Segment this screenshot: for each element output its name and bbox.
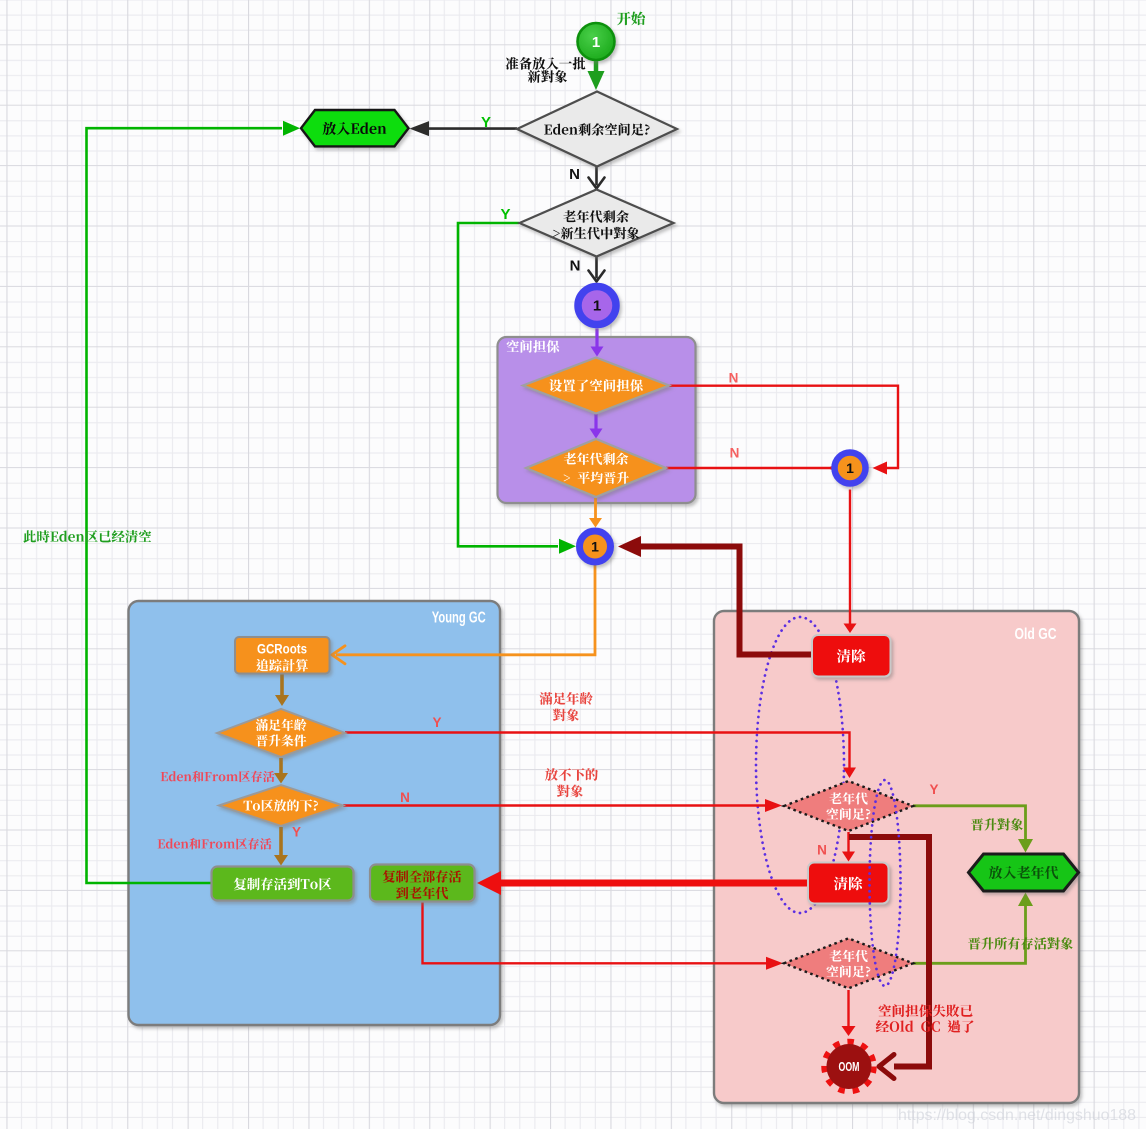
label 放不下的 [545,768,598,781]
wire start arrow [594,59,599,72]
wire N down 2 [595,257,598,279]
wire purple arrow 2 [594,414,597,430]
svg-text:Y: Y [481,114,491,131]
svg-text:Y: Y [929,782,938,797]
label 新对象 [528,70,567,83]
svg-text:1: 1 [592,34,600,51]
svg-text:N: N [817,843,827,858]
wire green Y to node [458,223,558,546]
wire purple arrow 1 [595,329,598,348]
process 复制全部存活 box [370,865,475,902]
label 对象 red2 [557,785,583,798]
text 复制存活到To区 [234,878,332,891]
label 晋升所有存活对象 [968,937,1073,950]
svg-text:Old GC: Old GC [1015,626,1057,643]
decision To区放的下 [219,785,343,826]
process 清除2 box [808,863,889,904]
label EdenFrom 1 [161,771,275,783]
wire red to 清除1 [849,490,851,625]
start node circle [578,23,615,60]
svg-text:Y: Y [500,206,510,223]
label 对象 red1 [553,709,579,722]
label 经OldGC过了 [876,1020,974,1033]
dotted loop ellipse big [756,617,844,913]
text 复制全部存活 [383,870,462,883]
decision 老年代剩余 [520,190,674,257]
wire brown 2 [279,758,283,774]
text 晋升条件 [256,734,307,746]
svg-text:1: 1 [593,298,601,315]
process GCRoots box [235,637,330,674]
label 晋升对象 [971,818,1023,830]
text 设置了空间担保 [549,379,643,392]
wire green loop to 放入Eden [87,128,283,883]
wire maroon to OOM [849,837,929,1067]
node orange right 1 [835,453,866,484]
svg-text:https://blog.csdn.net/dingshuo: https://blog.csdn.net/dingshuo188 [898,1107,1136,1124]
text 追踪计算 [256,659,308,672]
wire olive 1 [913,806,1026,840]
text 老年代b [829,950,867,962]
svg-text:N: N [400,790,410,805]
svg-text:1: 1 [591,539,599,555]
label 空间担保失败已 [879,1004,973,1017]
label 准备放入一批 [506,57,586,70]
wire red N2 [666,467,842,469]
text 放入老年代 [989,866,1058,879]
text To区放的下 [243,799,317,811]
label 满足年龄 red [540,692,593,705]
process 放入Eden hexagon [301,110,409,146]
text 老年代剩余2 [564,452,629,464]
container box Young GC [129,601,501,1025]
text 老年代剩余 [563,210,629,223]
wire brown 3 [279,827,283,856]
svg-text:N: N [730,446,740,461]
svg-text:GCRoots: GCRoots [257,642,307,657]
label 此时Eden区已经清空 [23,530,151,543]
node blue-orange 1 [580,531,611,562]
text Eden剩余空间足 [544,123,649,136]
svg-text:N: N [570,258,581,275]
label 开始 [617,12,645,26]
text 平均晋升 [564,471,629,483]
text 到老年代 [396,887,448,900]
process 放入老年代 hexagon [969,854,1079,891]
text 满足年龄 [256,719,307,731]
label EdenFrom 2 [158,838,272,850]
svg-text:N: N [729,371,739,386]
text 清除1 [837,649,866,663]
svg-text:Y: Y [292,825,301,840]
container box 空间担保 [498,337,696,503]
svg-text:OOM: OOM [839,1059,860,1074]
wire brown 1 [280,674,284,696]
wire orange arrow [594,498,597,519]
text 清除2 [834,877,863,891]
wire thick red to box2 [501,880,808,887]
process 复制存活到To区 box [212,867,354,901]
decision 满足年龄晋升条件 [217,709,345,757]
svg-text:1: 1 [846,460,854,476]
terminator OOM circle [824,1042,874,1092]
label 空间担保 [507,340,560,353]
text 空间足b [826,965,870,977]
svg-text:Y: Y [432,715,441,730]
wire maroon to node [640,547,812,655]
decision 设置了空间担保 [523,358,669,414]
svg-text:N: N [569,166,580,183]
decision Eden剩余空间足 [517,92,677,167]
wire red N toqu [343,804,765,806]
decision 老年代空间足1 [784,781,913,831]
svg-text:Young GC: Young GC [432,610,486,627]
container box Old GC [714,611,1079,1103]
node purple 1 [578,287,616,325]
wire red N1 [669,386,898,468]
wire red Y age [345,733,850,769]
text 新生代中对象 [553,227,639,239]
wire N down 1 [595,167,598,186]
wire orange to GCRoots [336,565,595,655]
wire red N 清除2 [847,832,849,852]
dotted loop ellipse small [870,780,901,986]
decision 老年代空间足2 [784,938,913,988]
text 老年代a [829,792,867,804]
wire olive 2 [913,906,1026,963]
process 清除1 box [812,635,891,677]
text 空间足a [826,808,870,820]
wire red to OOM [847,990,849,1027]
wire red box2 to diamond [423,902,767,964]
decision 老年代剩余平均晋升 [526,439,666,497]
wire Y to 放入Eden [428,127,517,130]
text 放入Eden [323,122,387,135]
